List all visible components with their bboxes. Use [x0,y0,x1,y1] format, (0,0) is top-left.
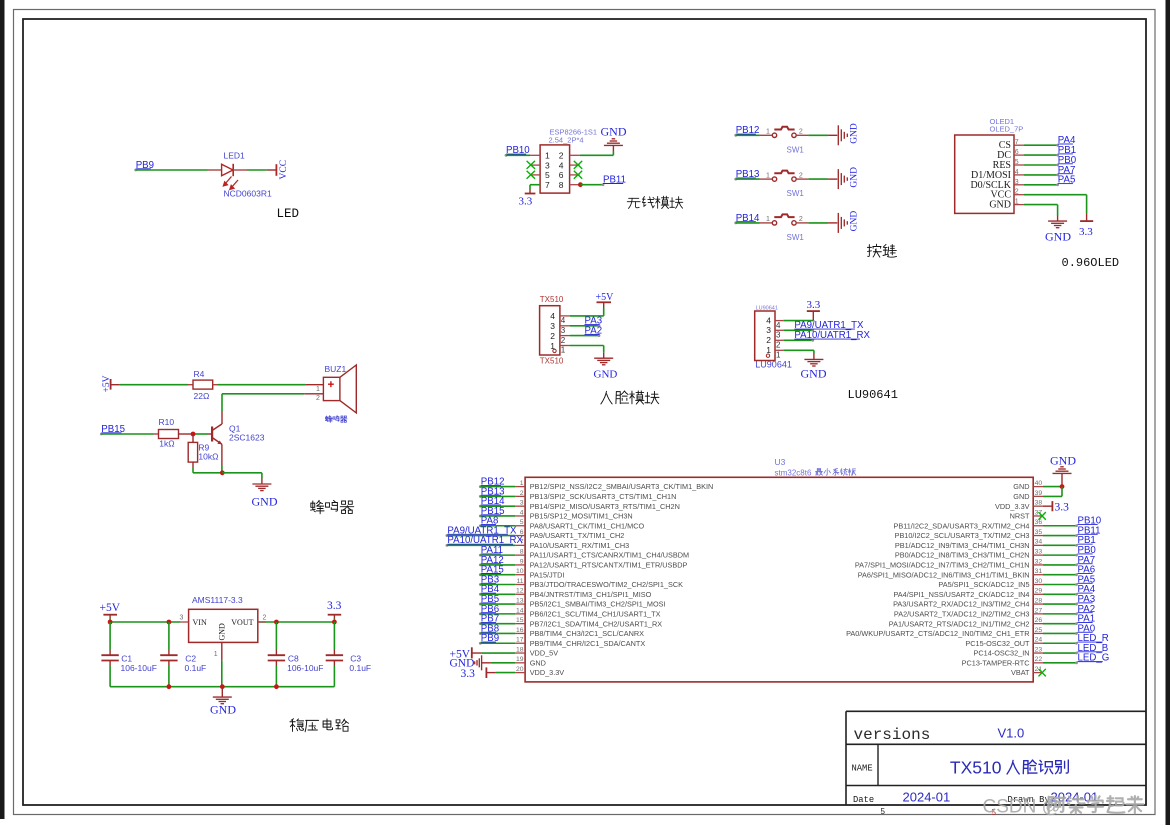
ground flag GND (OLED) [1045,221,1071,243]
wire junction to R9 [192,434,194,442]
svg-text:V1.0: V1.0 [998,726,1025,741]
ground flag GND (regulator) [210,687,236,717]
regulator U AMS1117-3.3 [180,595,267,658]
node PB13 (U3 pin 2) [479,486,505,498]
svg-text:1: 1 [766,172,770,179]
svg-text:AMS1117-3.3: AMS1117-3.3 [192,595,243,605]
svg-text:PA5/SPI1_SCK/ADC12_IN5: PA5/SPI1_SCK/ADC12_IN5 [938,580,1029,589]
ESP8266 pin stubs [530,155,580,184]
wire U3 pin 33 to PB0 [1043,554,1078,557]
svg-text:5: 5 [881,807,886,816]
wire top rail [108,620,337,625]
wire U3 pin39 to GND [1043,487,1062,497]
left edge black strip [0,0,5,819]
wire U3 pin 31 to PA6 [1043,573,1078,576]
node PB12 (U3 pin 1) [479,477,505,489]
svg-text:PC14-OSC32_IN: PC14-OSC32_IN [974,649,1030,658]
svg-text:GND: GND [594,369,618,381]
wire R9 to emitter rail [192,462,194,473]
svg-text:PA11/USART1_CTS/CANRX/TIM1_CH4: PA11/USART1_CTS/CANRX/TIM1_CH4/USBDM [530,551,689,560]
connector LU90641 body [755,306,792,370]
svg-text:PA7/SPI1_MOSI/ADC12_IN7/TIM3_C: PA7/SPI1_MOSI/ADC12_IN7/TIM3_CH2/TIM1_CH… [855,561,1030,570]
ground flag GND (SW PB12) [838,123,859,145]
mcu U3 right pin names [846,482,1030,677]
svg-text:GND: GND [850,123,860,144]
svg-text:1: 1 [214,651,218,658]
svg-text:106-10uF: 106-10uF [121,663,157,673]
svg-text:7: 7 [545,180,550,190]
section title 人脸模块 [601,391,659,404]
title versions row [854,726,1025,745]
svg-text:GND: GND [850,167,860,188]
wire PA12 to U3 pin 9 [480,564,515,566]
svg-text:+5V: +5V [596,292,615,303]
wire PA15 to U3 pin 10 [480,574,515,576]
ground flag GND (ESP8266) [601,125,627,146]
wire LU90641 pin4 to 3.3 [783,311,813,321]
wire PB3 to U3 pin 11 [480,584,515,586]
power flag 3.3 (U3 pin20) [461,667,496,680]
node PA10/UATR1_RX (U3 pin 7) [446,535,524,547]
no-connect X U3 pin21 VBAT [1039,669,1046,677]
wire emitter rail to GND [193,470,262,484]
svg-text:PB15/SP12_MOSI/TIM1_CH3N: PB15/SP12_MOSI/TIM1_CH3N [530,512,633,521]
svg-text:VOUT: VOUT [231,618,253,627]
svg-text:R4: R4 [194,369,205,379]
ground flag GND (U3 pin19) [450,655,491,670]
OLED1 pin names [970,140,1011,210]
LU90641 pin stubs [775,321,783,351]
svg-text:LED: LED [277,207,300,221]
svg-text:VCC: VCC [279,160,289,180]
svg-text:NCD0603R1: NCD0603R1 [224,189,272,199]
svg-text:PB11: PB11 [603,175,626,186]
wire PB14 to SW1.3 [736,222,773,224]
wire U3 pin 32 to PA7 [1043,564,1078,567]
svg-text:3: 3 [180,614,184,621]
section title 稳压电路 [290,719,349,732]
OLED1 pin numbers and stubs [1014,139,1024,205]
svg-text:PC15-OSC32_OUT: PC15-OSC32_OUT [965,639,1030,648]
svg-text:PB11/I2C2_SDA/USART3_RX/TIM2_C: PB11/I2C2_SDA/USART3_RX/TIM2_CH4 [894,521,1030,530]
ground flag GND (SW PB13) [838,167,859,189]
node PA6 [1078,565,1096,576]
title NAME row [852,758,1069,778]
power flag +5V (TX510) [596,292,615,303]
junction R10/R9 [191,432,196,437]
ground flag GND (LU90641) [801,359,827,380]
svg-text:1kΩ: 1kΩ [159,439,174,449]
svg-text:GND: GND [1013,492,1029,501]
title Date row [853,790,1098,805]
svg-text:1: 1 [766,345,771,355]
svg-text:PB5/I2C1_SMBAI/TIM3_CH2/SPI1_M: PB5/I2C1_SMBAI/TIM3_CH2/SPI1_MOSI [530,600,666,609]
wire OLED pin7 to PA4 [1024,144,1059,147]
wire U3 pin 23 to LED_B [1043,652,1078,655]
capacitor C2 [160,622,206,687]
svg-text:2SC1623: 2SC1623 [229,433,265,443]
section title 蜂鸣器 [311,500,354,513]
svg-text:GND: GND [1045,230,1071,244]
wire PB13 to SW1.2 [736,178,773,180]
svg-text:3.3: 3.3 [1079,226,1093,238]
svg-text:2: 2 [766,335,771,345]
capacitor C1 [101,622,156,687]
svg-text:SW1: SW1 [787,233,805,242]
wire GND to U3 pin19 [491,662,515,664]
power flag 3.3 (LU90641) [807,299,821,311]
svg-text:PB4/JNTRST/TIM3_CH1/SPI1_MISO: PB4/JNTRST/TIM3_CH1/SPI1_MISO [530,590,652,599]
svg-text:+5V: +5V [100,602,121,614]
svg-text:8: 8 [559,180,564,190]
svg-text:PA4/SPI1_NSS/USART2_CK/ADC12_I: PA4/SPI1_NSS/USART2_CK/ADC12_IN4 [893,590,1029,599]
svg-text:GND: GND [1013,482,1029,491]
right edge black strip [1166,0,1170,825]
wire OLED pin5 to PB0 [1024,164,1059,167]
mcu U3 left pin names [530,482,714,677]
node PB9 [134,160,154,172]
node PA8 (U3 pin 5) [479,516,498,528]
svg-text:PA12/USART1_RTS/CANTX/TIM1_ETR: PA12/USART1_RTS/CANTX/TIM1_ETR/USBDP [530,561,688,570]
svg-text:2: 2 [776,341,781,350]
wire OLED pin4 to PA7 [1024,174,1059,177]
svg-text:GND: GND [801,366,827,380]
node PA4 [1058,135,1076,146]
node PB12 [734,125,759,137]
node PA4 [1078,584,1096,595]
svg-text:4: 4 [559,160,564,170]
capacitor C3 [326,622,371,687]
node PA2 [585,326,603,337]
wire TX510 pin4 to +5V [570,302,604,316]
wire PA9/UATR1_TX to U3 pin 6 [447,535,515,537]
power flag 3.3 (ESP8266) [519,194,536,208]
wire PB9 to U3 pin 17 [480,642,515,644]
connector TX510 body [540,295,564,366]
node PA10/UATR1_RX (LU90641) [794,330,870,341]
wire 3.3 to U3 pin20 [496,672,516,674]
wire bottom rail [110,684,334,689]
wire PB5 to U3 pin 13 [480,603,515,605]
svg-text:PB8/TIM4_CH3/I2C1_SCL/CANRX: PB8/TIM4_CH3/I2C1_SCL/CANRX [530,629,644,638]
node PB7 (U3 pin 15) [479,614,499,625]
svg-text:3.3: 3.3 [807,299,821,311]
node PA9/UATR1_TX (LU90641) [794,320,864,331]
svg-text:PB13/SPI2_SCK/USART3_CTS/TIM1_: PB13/SPI2_SCK/USART3_CTS/TIM1_CH1N [530,492,677,501]
switch SW1 (PB14) [766,214,804,242]
svg-text:stm32c8t6: stm32c8t6 [775,468,812,477]
node PA7 [1078,555,1096,566]
wire U3 pin 35 to PB11 [1043,534,1078,537]
node PB15 [100,424,125,436]
svg-text:2024-01: 2024-01 [903,790,951,805]
wire U3 pin 30 to PA5 [1043,583,1078,586]
wire OLED GND pin1 to GND [1024,205,1058,222]
svg-text:PA8/USART1_CK/TIM1_CH1/MCO: PA8/USART1_CK/TIM1_CH1/MCO [530,521,645,530]
svg-text:PA10/USART1_RX/TIM1_CH3: PA10/USART1_RX/TIM1_CH3 [530,541,630,550]
svg-text:0.1uF: 0.1uF [185,663,207,673]
wire BUZ1 pin2 to Q1 collector [222,394,323,424]
ground flag GND (TX510) [594,358,618,380]
wire PB12 to SW1.1 [736,134,773,136]
wire PA11 to U3 pin 8 [480,554,515,556]
power flag VCC [276,160,289,180]
wire AMS1117 GND pin to bottom rail [221,642,223,686]
svg-text:TX510: TX510 [950,758,1002,778]
svg-text:1: 1 [766,216,770,223]
power flag +5V (U3 pin18) [450,647,482,660]
wire LU90641 pin3 to PA9/UATR1_TX [783,329,814,332]
node PA3 [1078,594,1096,605]
mcu U3 left pin numbers and stubs [515,480,525,673]
section title LED [277,207,300,221]
node LED_G [1078,653,1110,664]
svg-text:U3: U3 [775,457,786,467]
wire TX510 pin1 to GND [570,346,604,359]
svg-text:GND: GND [252,495,278,509]
wire PB9 to LED1 [136,169,222,171]
node PB0 [1078,545,1097,556]
svg-text:LU90641: LU90641 [755,360,792,370]
svg-text:2: 2 [799,129,803,136]
svg-text:3: 3 [550,321,555,331]
svg-text:1: 1 [545,151,550,161]
svg-text:1: 1 [766,129,770,136]
node PA12 (U3 pin 9) [479,555,504,566]
svg-text:GND: GND [218,623,227,641]
switch SW1 (PB13) [766,171,804,199]
wire U3 pin 22 to LED_G [1043,661,1078,664]
wire ESP pin7 to 3.3 [530,185,540,194]
svg-text:4: 4 [561,316,566,325]
wire ESP pin2 to GND [580,145,614,155]
svg-text:5: 5 [545,170,550,180]
svg-text:TX510: TX510 [540,295,564,304]
svg-text:4: 4 [550,311,555,321]
wire U3 pin 28 to PA3 [1043,603,1078,606]
svg-text:GND: GND [1050,454,1076,468]
wire U3 pin 25 to PA0 [1043,632,1078,635]
svg-text:4: 4 [766,315,771,325]
wire LU90641 pin1 to GND [783,350,814,359]
node PB0 [1058,155,1077,166]
svg-text:3.3: 3.3 [519,196,533,208]
node PB9 (U3 pin 17) [479,633,499,644]
svg-text:3.3: 3.3 [461,668,476,680]
node PA2 [1078,604,1096,615]
node PB11 [1078,525,1101,536]
node PB6 (U3 pin 14) [479,604,499,615]
svg-text:PB14/SPI2_MISO/USART3_RTS/TIM1: PB14/SPI2_MISO/USART3_RTS/TIM1_CH2N [530,502,680,511]
capacitor C8 [268,622,324,687]
LU90641 pin numbers [766,315,781,359]
svg-text:2.54_2P*4: 2.54_2P*4 [549,135,584,144]
wire U3 pin 24 to LED_R [1043,642,1078,645]
node PA0 [1078,623,1096,634]
svg-text:3: 3 [561,326,566,335]
svg-text:TX510: TX510 [540,357,564,366]
node PB15 (U3 pin 4) [479,506,505,517]
section title 按键 [867,244,896,257]
wire SW1.3 to GND [796,222,837,224]
TX510 pin numbers [550,311,566,355]
resistor R9 [188,442,218,462]
wire OLED VCC pin2 to 3.3 [1024,195,1087,221]
no-connect X ESP pin4 [574,161,582,169]
watermark CSDN [983,796,1144,818]
node PA5 [1058,175,1076,186]
wire R10 to Q1 base [179,433,213,435]
wire R4 to BUZ1 pin1 [213,384,324,386]
svg-text:1: 1 [776,351,781,360]
power flag +5V (buzzer) [102,375,112,392]
no-connect X ESP pin6 [574,171,582,179]
svg-text:R10: R10 [159,417,175,427]
TX510 pin stubs [560,316,570,346]
wire ESP pin8 to PB11 [578,182,604,187]
node PA1 [1078,614,1096,625]
svg-text:6: 6 [559,170,564,180]
no-connect X ESP pin5 [527,171,535,179]
svg-text:PA10/UATR1_RX: PA10/UATR1_RX [794,330,870,341]
svg-text:PA15/JTDI: PA15/JTDI [530,570,565,579]
svg-text:3.3: 3.3 [327,600,342,612]
svg-text:PB6/I2C1_SCL/TIM4_CH1/USART1_T: PB6/I2C1_SCL/TIM4_CH1/USART1_TX [530,609,661,618]
svg-text:GND: GND [530,658,546,667]
svg-text:0.96OLED: 0.96OLED [1062,256,1120,270]
ESP8266 pin numbers [545,151,564,190]
wire TX510 pin3 to PA3 [570,324,600,327]
node PB14 [734,213,760,225]
wire PB8 to U3 pin 16 [480,632,515,634]
node LED_B [1078,643,1109,654]
wire SW1.2 to GND [796,178,837,180]
wire PB15 to R10 [101,433,158,435]
wire PB14 to U3 pin 3 [480,505,515,507]
wire U3 pin40 to GND [1043,484,1064,489]
node LED_R [1078,633,1109,644]
svg-text:VDD_3.3V: VDD_3.3V [995,502,1030,511]
power flag 3.3 (U3 pin38) [1043,501,1069,513]
svg-text:versions: versions [854,726,931,744]
wire LU90641 pin2 to PA10/UATR1_RX [783,339,814,342]
LED LED1 [222,150,272,198]
svg-text:GND: GND [989,200,1011,211]
sheet zone number 5 red [992,808,997,817]
node PB13 [734,169,759,181]
svg-text:PA2: PA2 [585,326,603,337]
wire PA8 to U3 pin 5 [480,525,515,527]
node PB1 [1078,535,1096,546]
wire TX510 pin2 to PA2 [570,334,600,337]
svg-text:VDD_5V: VDD_5V [530,649,559,658]
title block frame [846,711,1146,805]
node PB4 (U3 pin 12) [479,584,500,595]
svg-text:4: 4 [776,321,781,330]
mcu U3 body [525,457,1033,682]
svg-text:LED1: LED1 [224,150,246,160]
svg-text:3.3: 3.3 [1055,502,1070,514]
wire U3 pin 29 to PA4 [1043,593,1078,596]
svg-text:VIN: VIN [193,618,207,627]
svg-text:Date: Date [853,795,874,805]
wire U3 pin 26 to PA1 [1043,622,1078,625]
wire PB7 to U3 pin 15 [480,623,515,625]
wire U3 pin 27 to PA2 [1043,612,1078,615]
svg-text:2: 2 [561,336,566,345]
svg-text:3: 3 [766,325,771,335]
node PB11 [603,175,626,186]
svg-text:2: 2 [263,614,267,621]
transistor Q1 [212,424,265,473]
svg-text:PB12/SPI2_NSS/I2C2_SMBAI/USART: PB12/SPI2_NSS/I2C2_SMBAI/USART3_CK/TIM1_… [530,482,714,491]
wire +5V to R4 [111,384,193,386]
node PA3 [585,316,603,327]
svg-text:PA0/WKUP/USART2_CTS/ADC12_IN0/: PA0/WKUP/USART2_CTS/ADC12_IN0/TIM2_CH1_E… [846,629,1029,638]
svg-text:OLED_7P: OLED_7P [990,125,1024,134]
svg-text:3: 3 [776,331,781,340]
power flag 3.3 (OLED) [1079,221,1093,238]
node PB14 (U3 pin 3) [479,496,505,508]
mcu U3 subtitle stm32c8t6 [775,468,856,477]
svg-text:PA2/USART2_TX/ADC12_IN2/TIM2_C: PA2/USART2_TX/ADC12_IN2/TIM2_CH3 [894,609,1030,618]
ground flag GND (SW PB14) [838,211,859,233]
svg-text:1: 1 [561,346,566,355]
resistor R4 [193,369,213,401]
svg-text:VBAT: VBAT [1011,668,1030,677]
svg-text:PB7/I2C1_SDA/TIM4_CH2/USART1_R: PB7/I2C1_SDA/TIM4_CH2/USART1_RX [530,619,663,628]
wire U3 pin 34 to PB1 [1043,544,1078,547]
sheet zone number 5 [881,807,886,816]
wire PB13 to U3 pin 2 [480,495,515,497]
wire PB12 to U3 pin 1 [480,486,515,488]
svg-text:22Ω: 22Ω [194,391,210,401]
svg-text:10kΩ: 10kΩ [198,452,218,462]
svg-text:PA1/USART2_RTS/ADC12_IN1/TIM2_: PA1/USART2_RTS/ADC12_IN1/TIM2_CH2 [889,619,1030,628]
svg-text:NAME: NAME [852,764,873,774]
wire SW1.1 to GND [796,134,837,136]
svg-text:2: 2 [550,331,555,341]
svg-text:PA6/SPI1_MISO/ADC12_IN6/TIM3_C: PA6/SPI1_MISO/ADC12_IN6/TIM3_CH1/TIM1_BK… [858,570,1030,579]
svg-text:SW1: SW1 [787,189,805,198]
resistor R10 [159,417,179,449]
mcu U3 right pin numbers and stubs [1033,480,1043,673]
node PA15 (U3 pin 10) [479,565,504,577]
no-connect X U3 pin37 NRST [1039,512,1046,520]
buzzer BUZ1 [316,364,356,422]
svg-text:0.1uF: 0.1uF [349,663,371,673]
node PA9/UATR1_TX (U3 pin 6) [446,525,518,536]
svg-text:PB1/ADC12_IN9/TIM3_CH4/TIM1_CH: PB1/ADC12_IN9/TIM3_CH4/TIM1_CH3N [895,541,1030,550]
ground flag GND (U3 pin40) [1050,454,1076,487]
svg-text:SW1: SW1 [787,145,805,154]
svg-text:VDD_3.3V: VDD_3.3V [530,668,565,677]
svg-text:3: 3 [545,160,550,170]
svg-text:1: 1 [316,386,320,393]
wire OLED pin6 to PB1 [1024,154,1059,157]
svg-text:PB3/JTDO/TRACESWO/TIM2_CH2/SPI: PB3/JTDO/TRACESWO/TIM2_CH2/SPI1_SCK [530,580,683,589]
node PB8 (U3 pin 16) [479,623,499,635]
no-connect X ESP pin3 [527,161,535,169]
switch SW1 (PB12) [766,127,804,155]
section title 0.96OLED [1062,256,1120,270]
svg-text:2: 2 [559,151,564,161]
svg-text:GND: GND [601,125,627,139]
wire PA10/UATR1_RX to U3 pin 7 [447,544,515,546]
power flag 3.3 (regulator) [327,600,342,622]
svg-text:2: 2 [799,216,803,223]
section title LU90641 [848,388,898,402]
